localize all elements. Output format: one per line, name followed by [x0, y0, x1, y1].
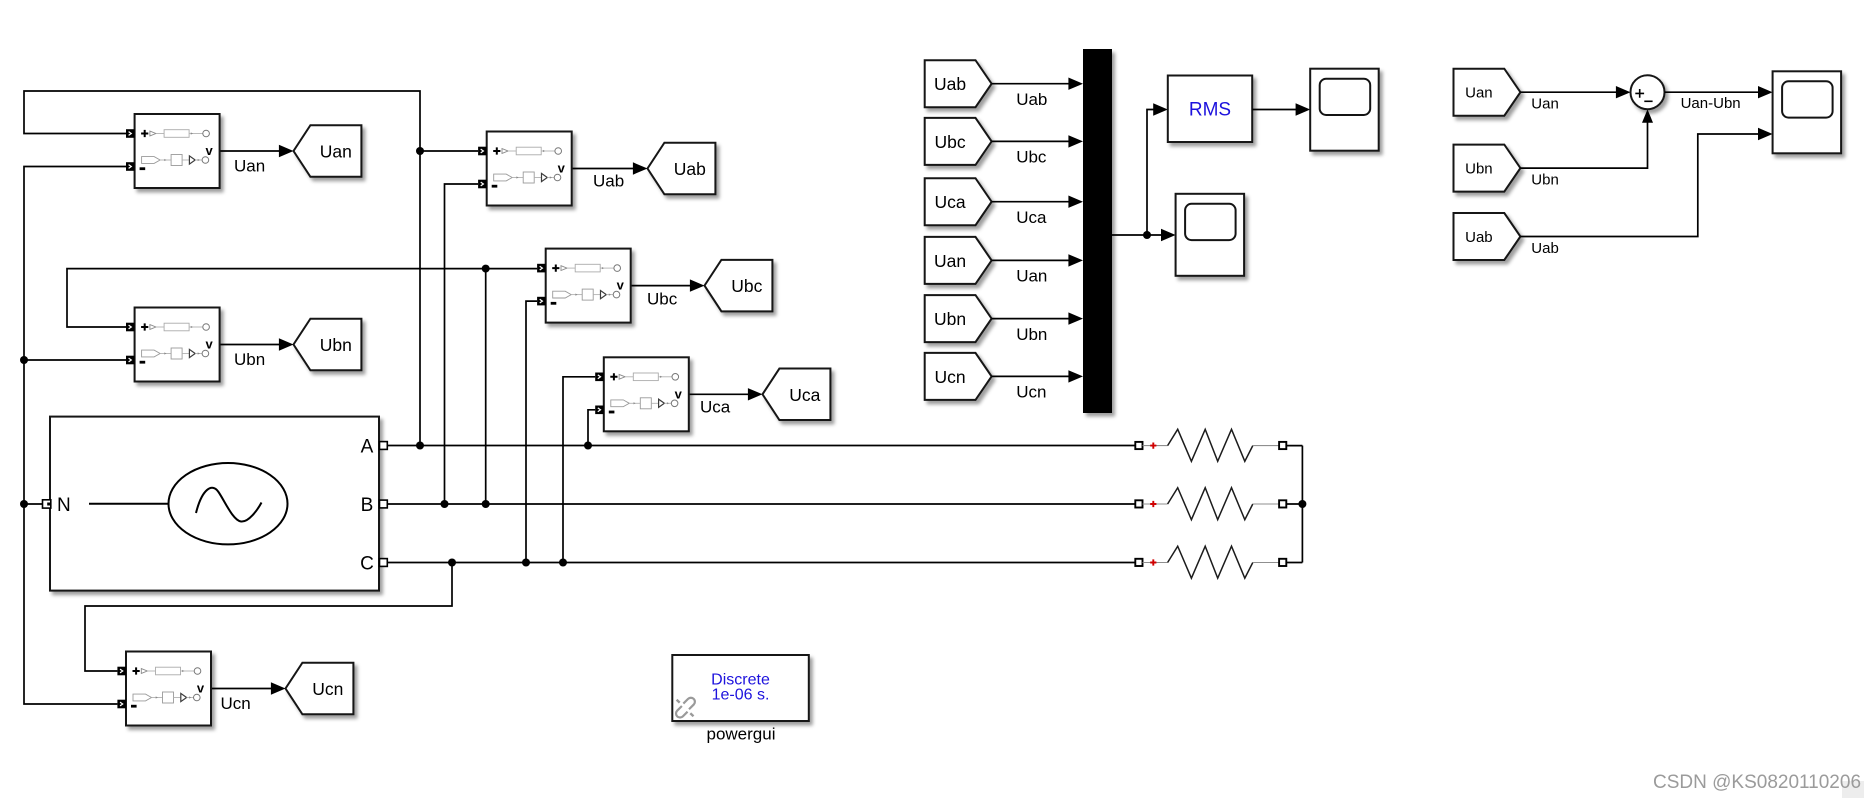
svg-text:Uab: Uab: [593, 172, 624, 191]
junction on line C at x452: [448, 559, 456, 567]
wire: Uab measurement output to goto tag: [572, 168, 635, 170]
scope3 (right): [1773, 71, 1842, 153]
voltage measurement block Uab: [478, 132, 572, 206]
svg-text:N: N: [57, 495, 71, 516]
svg-text:Uab: Uab: [934, 74, 966, 94]
from tag Uab (mux row 1): [925, 60, 992, 107]
RMS block: [1168, 76, 1252, 143]
svg-text:powergui: powergui: [707, 725, 776, 744]
junction on line B at x444.5: [441, 500, 449, 508]
source port A: [380, 442, 388, 450]
svg-text:Ubn: Ubn: [1531, 172, 1559, 189]
svg-text:Ucn: Ucn: [221, 694, 251, 713]
from tag Ubc (mux row 2): [925, 118, 992, 165]
svg-text:Uca: Uca: [935, 192, 966, 212]
svg-text:B: B: [361, 495, 374, 516]
wire net B: upper branch to Ubn + and Ubc +: [67, 269, 537, 327]
source port N: [43, 500, 51, 508]
svg-text:Ubc: Ubc: [731, 276, 762, 296]
mux: [1083, 49, 1112, 413]
goto tag Uca: [763, 369, 831, 421]
from tag Uab (right): [1454, 213, 1521, 260]
watermark: [1842, 781, 1864, 798]
junction on line A at x420: [416, 442, 424, 450]
junction on upper B branch: [482, 265, 490, 273]
wire net B: source B port to load R2: [387, 503, 1135, 505]
source port B: [380, 500, 388, 508]
svg-text:Uan-Ubn: Uan-Ubn: [1681, 95, 1741, 112]
from tag Uca (mux row 3): [925, 178, 992, 225]
scope1 (after RMS): [1310, 69, 1379, 151]
wire net A: source A port to load R1: [387, 445, 1135, 447]
resistor R3 (series RLC branch, phase C): [1135, 546, 1302, 578]
scope2 (mux output): [1176, 194, 1245, 276]
from tag Ubn (mux row 5): [925, 295, 992, 342]
svg-text:Uan: Uan: [934, 251, 966, 271]
voltage measurement block Ubc: [537, 249, 631, 323]
svg-text:Uan: Uan: [1465, 85, 1493, 102]
wire: from tag Ubn to mux input 5: [992, 318, 1070, 320]
powergui broken-link icon: [674, 696, 696, 719]
junction on line A at x588: [584, 442, 592, 450]
svg-text:Uab: Uab: [674, 159, 706, 179]
resistor R2 (series RLC branch, phase B): [1135, 488, 1302, 520]
svg-text:Uab: Uab: [1465, 229, 1493, 246]
wire: Uca measurement output to goto tag: [689, 393, 750, 395]
svg-text:Uan: Uan: [320, 142, 352, 162]
junction on line C at x526: [522, 559, 530, 567]
svg-text:Uan: Uan: [1016, 267, 1047, 286]
powergui block: [672, 655, 809, 721]
svg-text:Uan: Uan: [234, 157, 265, 176]
wire net A: tap to Uca - input: [588, 410, 595, 446]
from tag Uan (mux row 4): [925, 237, 992, 284]
voltage measurement block Ucn: [117, 652, 211, 726]
goto tag Ubc: [705, 260, 773, 312]
wire: RMS output to scope1: [1252, 109, 1297, 111]
svg-text:Ucn: Ucn: [312, 679, 343, 699]
wire: branch up to RMS input: [1147, 110, 1155, 236]
wire: Ucn measurement output to goto tag: [211, 688, 273, 690]
junction on riser x420 at Uab tap: [416, 147, 424, 155]
junction on line C at x563: [559, 559, 567, 567]
junction on mux output: [1143, 231, 1151, 239]
from tag Uan (right): [1454, 69, 1521, 116]
voltage measurement block Uca: [595, 357, 689, 431]
junction on N bus at Ubn tap: [20, 356, 28, 364]
wire net B: riser x444.5 to Uab - input: [445, 184, 479, 504]
voltage measurement block Uan: [126, 114, 220, 188]
wire net A: riser x420 up over top to Uan + input: [24, 91, 420, 446]
goto tag Uan: [294, 125, 362, 177]
wire net B: riser x485.7: [485, 269, 487, 504]
from tag Ubn (right): [1454, 145, 1521, 192]
wire: from tag Uan to mux input 4: [992, 259, 1070, 261]
wire: Uan to sum + input: [1520, 91, 1617, 93]
goto tag Ucn: [286, 663, 354, 715]
svg-text:Ubc: Ubc: [647, 289, 678, 308]
svg-text:Ubc: Ubc: [1016, 148, 1047, 167]
wire: load neutral vertical: [1301, 446, 1303, 563]
svg-text:C: C: [360, 554, 374, 575]
wire net C: source C port to load R3: [387, 562, 1135, 564]
wire net A: tap to Uab + input: [420, 150, 478, 152]
svg-text:Ucn: Ucn: [1016, 383, 1046, 402]
svg-text:A: A: [361, 437, 374, 458]
wire: from tag Uab to mux input 1: [992, 83, 1070, 85]
wire net C: riser to Ubc - input: [526, 301, 537, 562]
wire: Ubn measurement output to goto tag: [219, 344, 281, 346]
wire net C: drop to Ucn + input: [85, 563, 452, 672]
junction on load neutral: [1298, 500, 1306, 508]
resistor R1 (series RLC branch, phase A): [1135, 429, 1302, 461]
wire: sum output to scope3 input 1: [1665, 91, 1760, 93]
goto tag Uab: [648, 143, 716, 195]
source port C: [380, 559, 388, 567]
svg-text:Ubn: Ubn: [1465, 161, 1493, 178]
svg-text:1e-06 s.: 1e-06 s.: [712, 687, 770, 704]
svg-text:Uca: Uca: [700, 397, 731, 416]
junction on N bus at source N: [20, 500, 28, 508]
svg-text:Ubn: Ubn: [934, 309, 966, 329]
svg-text:RMS: RMS: [1189, 99, 1231, 120]
three-phase source block: [50, 417, 379, 591]
wire net C: riser to Uca + input: [563, 377, 595, 563]
wire: Ubn to sum - input: [1520, 123, 1647, 169]
svg-text:Ubn: Ubn: [320, 335, 352, 355]
svg-text:CSDN @KS0820110206: CSDN @KS0820110206: [1653, 772, 1861, 793]
wire: Uab to scope3 input 2: [1520, 134, 1759, 237]
goto tag Ubn: [294, 319, 362, 371]
wire: from tag Uca to mux input 3: [992, 201, 1070, 203]
junction on line B at x485.7: [482, 500, 490, 508]
svg-text:Uca: Uca: [789, 385, 820, 405]
wire net N: left bus down to Ucn - input: [24, 167, 127, 705]
svg-text:Uca: Uca: [1016, 208, 1047, 227]
svg-text:Uan: Uan: [1531, 96, 1559, 113]
wire: Ubc measurement output to goto tag: [631, 285, 692, 287]
svg-text:Uab: Uab: [1531, 240, 1559, 257]
wire: from tag Ucn to mux input 6: [992, 375, 1070, 377]
svg-text:Ucn: Ucn: [935, 367, 966, 387]
sum block: [1631, 75, 1665, 109]
voltage measurement block Ubn: [126, 308, 220, 382]
from tag Ucn (mux row 6): [925, 353, 992, 400]
wire net N: tap to Ubn - input: [24, 359, 127, 361]
wire: Uan measurement output to goto tag: [219, 150, 281, 152]
wire: from tag Ubc to mux input 2: [992, 140, 1070, 142]
wire net N: source N port stub: [24, 503, 43, 505]
svg-text:Ubn: Ubn: [234, 350, 265, 369]
svg-text:Ubn: Ubn: [1016, 325, 1047, 344]
svg-text:Uab: Uab: [1016, 90, 1047, 109]
svg-text:Ubc: Ubc: [935, 132, 966, 152]
wire: mux output to scope2: [1112, 234, 1163, 236]
